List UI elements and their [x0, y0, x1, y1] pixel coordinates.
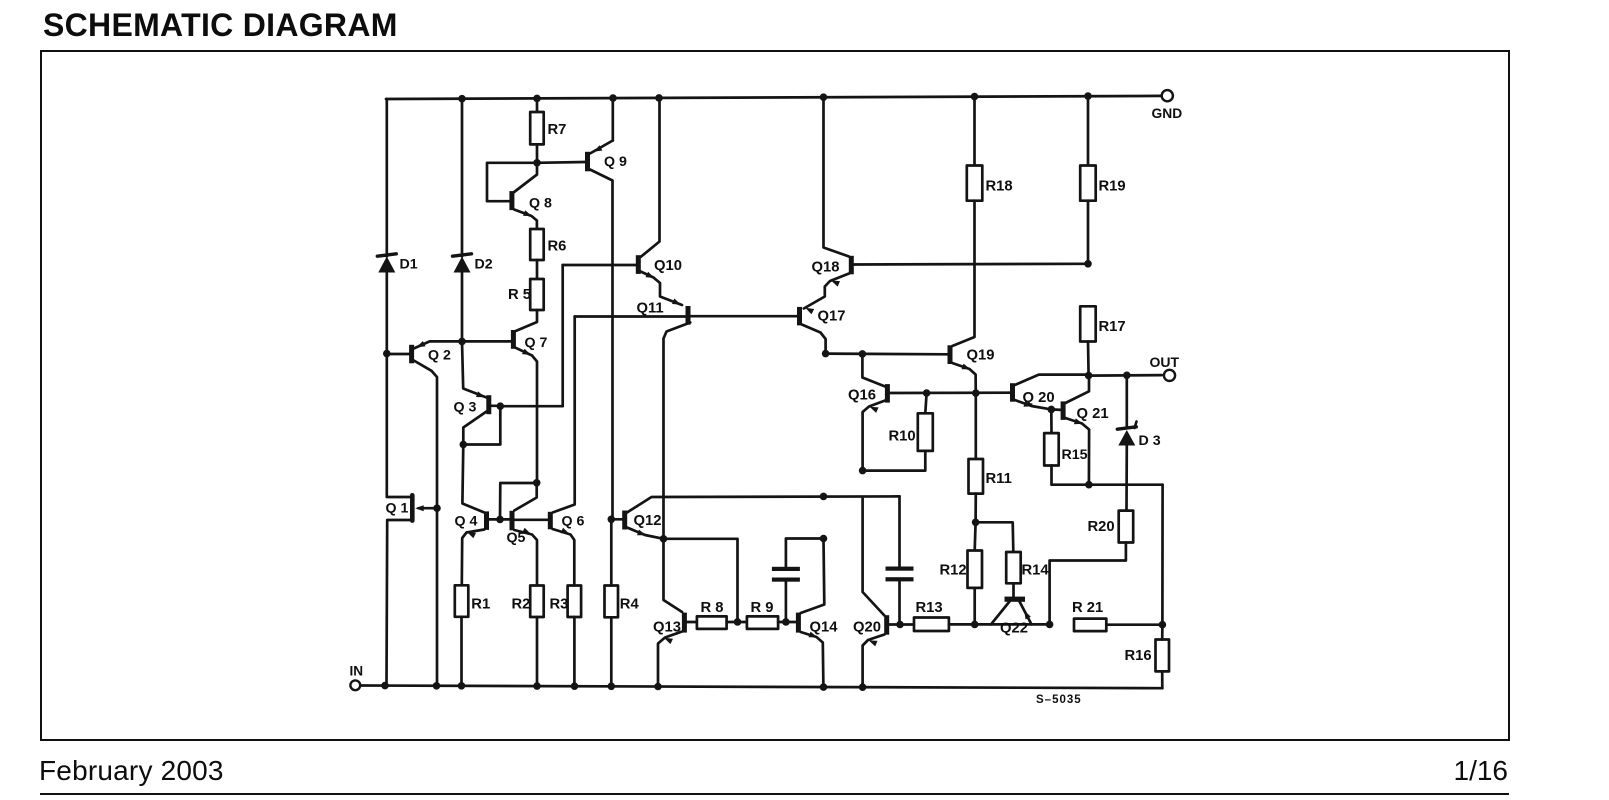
svg-text:D2: D2: [475, 257, 493, 273]
svg-text:Q13: Q13: [653, 620, 681, 636]
svg-text:Q17: Q17: [818, 309, 846, 325]
svg-text:IN: IN: [350, 664, 364, 679]
svg-text:R3: R3: [550, 597, 569, 613]
svg-text:Q11: Q11: [637, 301, 664, 317]
svg-text:Q20: Q20: [853, 620, 881, 636]
svg-text:R18: R18: [986, 179, 1013, 195]
svg-text:Q 7: Q 7: [525, 335, 548, 351]
svg-text:R13: R13: [916, 600, 943, 616]
svg-text:R7: R7: [548, 122, 567, 138]
svg-text:R6: R6: [548, 239, 567, 255]
svg-text:OUT: OUT: [1150, 354, 1180, 370]
svg-text:R 9: R 9: [751, 600, 774, 616]
svg-text:R20: R20: [1088, 519, 1115, 535]
svg-text:R10: R10: [889, 429, 916, 445]
svg-text:R15: R15: [1062, 447, 1088, 463]
svg-text:Q22: Q22: [1000, 621, 1028, 637]
svg-text:R2: R2: [512, 597, 531, 613]
svg-text:Q 20: Q 20: [1023, 390, 1055, 406]
svg-text:R 21: R 21: [1072, 600, 1103, 616]
svg-text:D 3: D 3: [1139, 433, 1161, 449]
svg-text:R19: R19: [1099, 179, 1126, 195]
svg-text:Q19: Q19: [967, 348, 995, 364]
svg-text:R16: R16: [1125, 648, 1152, 664]
svg-text:Q 9: Q 9: [604, 154, 627, 170]
svg-text:R 8: R 8: [701, 600, 724, 616]
svg-text:R12: R12: [940, 563, 967, 579]
svg-text:D1: D1: [400, 257, 418, 273]
svg-text:R 5: R 5: [508, 287, 531, 303]
svg-text:Q18: Q18: [812, 260, 840, 276]
svg-text:Q 8: Q 8: [529, 196, 552, 212]
svg-text:Q12: Q12: [634, 513, 662, 529]
svg-text:GND: GND: [1152, 106, 1183, 121]
svg-text:S–5035: S–5035: [1036, 694, 1082, 706]
svg-text:R11: R11: [986, 471, 1012, 487]
svg-text:Q 4: Q 4: [455, 514, 478, 530]
svg-text:Q14: Q14: [810, 620, 839, 636]
svg-text:R14: R14: [1022, 563, 1050, 579]
svg-text:Q 21: Q 21: [1077, 406, 1109, 422]
svg-text:R17: R17: [1099, 319, 1126, 335]
svg-text:Q 2: Q 2: [428, 348, 451, 364]
svg-text:Q16: Q16: [848, 388, 876, 404]
svg-text:R4: R4: [620, 597, 640, 613]
svg-text:Q 6: Q 6: [562, 514, 585, 530]
svg-text:Q 3: Q 3: [454, 400, 477, 416]
svg-text:Q10: Q10: [654, 258, 682, 274]
svg-text:R1: R1: [471, 597, 490, 613]
svg-text:Q 1: Q 1: [386, 501, 409, 517]
